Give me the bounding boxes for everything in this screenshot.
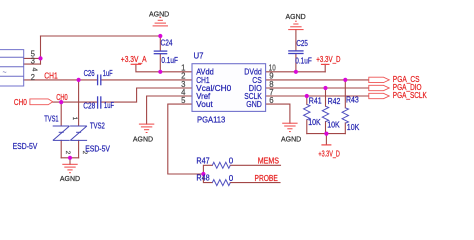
svg-text:MEMS: MEMS: [258, 157, 279, 166]
svg-text:+3.3V_A: +3.3V_A: [121, 55, 147, 64]
svg-text:~: ~: [3, 70, 7, 77]
svg-text:Vout: Vout: [196, 100, 213, 109]
svg-text:TVS1: TVS1: [44, 115, 59, 124]
svg-text:C24: C24: [161, 38, 173, 47]
svg-text:ESD-5V: ESD-5V: [13, 142, 38, 151]
svg-text:0: 0: [229, 157, 234, 166]
svg-text:ESD-5V: ESD-5V: [85, 144, 110, 153]
svg-text:CH0: CH0: [14, 98, 28, 107]
svg-text:AGND: AGND: [281, 134, 302, 143]
svg-text:0: 0: [229, 174, 234, 183]
svg-text:0.1uF: 0.1uF: [295, 56, 312, 65]
svg-text:+3.3V_D: +3.3V_D: [316, 55, 340, 64]
svg-text:C26: C26: [84, 69, 95, 78]
svg-text:R42: R42: [328, 97, 341, 106]
svg-text:PGA_SCLK: PGA_SCLK: [393, 91, 428, 100]
svg-text:+3.3V_D: +3.3V_D: [318, 150, 340, 159]
svg-text:R41: R41: [309, 96, 322, 105]
svg-text:CH0: CH0: [56, 93, 68, 102]
svg-text:R47: R47: [196, 156, 210, 165]
svg-text:C28: C28: [83, 101, 95, 110]
svg-text:CH1: CH1: [44, 72, 58, 81]
svg-text:5: 5: [181, 96, 186, 105]
svg-text:AGND: AGND: [286, 12, 307, 21]
svg-text:10K: 10K: [347, 123, 360, 132]
svg-text:6: 6: [269, 96, 273, 105]
svg-text:AGND: AGND: [149, 9, 170, 18]
svg-text:GND: GND: [246, 100, 262, 109]
svg-text:1uF: 1uF: [104, 101, 114, 110]
svg-text:10K: 10K: [327, 121, 340, 130]
svg-text:PROBE: PROBE: [255, 174, 278, 183]
svg-text:TVS2: TVS2: [90, 122, 105, 131]
svg-text:0.1uF: 0.1uF: [161, 56, 178, 65]
svg-text:10K: 10K: [308, 118, 321, 127]
svg-text:AGND: AGND: [60, 174, 81, 183]
svg-text:4: 4: [31, 68, 38, 72]
svg-text:3: 3: [31, 56, 35, 65]
svg-text:AGND: AGND: [133, 134, 154, 143]
svg-text:2: 2: [64, 151, 71, 155]
svg-text:2: 2: [31, 73, 35, 82]
svg-text:1uF: 1uF: [103, 69, 113, 78]
svg-text:C25: C25: [296, 39, 308, 48]
svg-text:PGA113: PGA113: [197, 115, 226, 124]
svg-text:U7: U7: [194, 52, 205, 61]
svg-text:R43: R43: [346, 96, 359, 105]
svg-text:R48: R48: [196, 173, 210, 182]
svg-text:1: 1: [71, 117, 78, 121]
